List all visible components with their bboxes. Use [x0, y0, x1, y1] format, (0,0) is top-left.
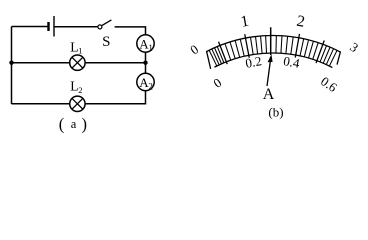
- wire: A2 down to bottom-right corner: [145, 91, 147, 105]
- svg-text:1: 1: [78, 46, 82, 56]
- node: left junction on L1 row: [9, 61, 13, 65]
- label L1: [70, 39, 82, 55]
- wire: A1 down to junction and on to A2: [145, 52, 147, 73]
- battery (cell): long positive plate: [53, 16, 55, 37]
- svg-text:S: S: [102, 34, 110, 50]
- svg-text:(b): (b): [268, 104, 283, 119]
- svg-text:0.2: 0.2: [244, 53, 263, 71]
- svg-text:0.4: 0.4: [282, 53, 301, 71]
- meter needle at 1.5 A: [270, 27, 272, 55]
- meter scale band: left end cap: [206, 51, 210, 69]
- wire: top from left corner to battery: [12, 26, 49, 28]
- wire: bottom row left of lamp L2: [12, 103, 70, 105]
- wire: bottom row right of lamp L2: [85, 103, 145, 105]
- meter scale band: inner arc: [214, 53, 332, 68]
- svg-text:3: 3: [347, 39, 361, 55]
- wire: battery to switch: [54, 26, 98, 28]
- wire: L1 row right: [85, 62, 145, 64]
- wire: L1 row left: [12, 62, 70, 64]
- svg-text:1: 1: [148, 43, 153, 53]
- pointer arrow below scale: [267, 54, 273, 86]
- meter scale band: outer arc: [206, 35, 340, 52]
- lamp L1: [70, 55, 85, 70]
- meter scale band: right end cap: [337, 51, 341, 64]
- ammeter A1: [137, 35, 154, 53]
- switch S: open blade: [102, 20, 112, 26]
- svg-text:): ): [82, 115, 88, 134]
- meter scale tick marks: [209, 34, 337, 66]
- node: right junction on L1 row: [143, 61, 147, 65]
- battery (cell): short negative plate: [47, 22, 49, 31]
- caption (a): [59, 115, 87, 134]
- switch S: pivot circle: [98, 25, 102, 29]
- wire: switch to top-right corner and down to A1: [115, 27, 146, 35]
- lamp L2: [70, 96, 85, 111]
- svg-text:0: 0: [187, 41, 201, 57]
- svg-text:A: A: [263, 86, 275, 103]
- wire: left vertical: [11, 27, 13, 105]
- svg-text:0: 0: [210, 75, 224, 91]
- svg-text:a: a: [71, 117, 77, 131]
- svg-text:1: 1: [239, 13, 250, 31]
- svg-text:2: 2: [148, 81, 153, 91]
- svg-text:(: (: [59, 115, 65, 134]
- svg-text:0.6: 0.6: [318, 73, 340, 95]
- svg-text:2: 2: [78, 85, 82, 95]
- ammeter A2: [137, 73, 154, 91]
- label L2: [70, 79, 82, 95]
- svg-text:2: 2: [295, 13, 306, 31]
